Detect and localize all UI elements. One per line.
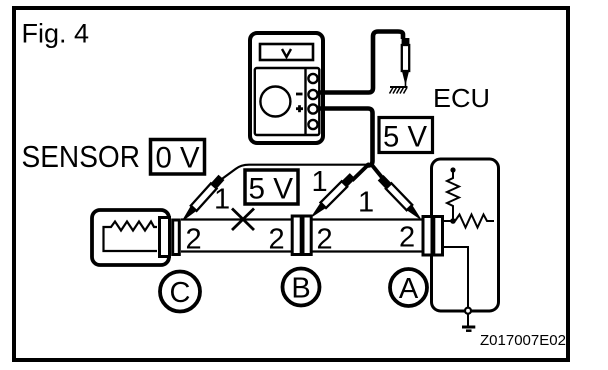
svg-text:5 V: 5 V <box>249 173 294 206</box>
svg-text:ECU: ECU <box>433 85 490 113</box>
svg-text:2: 2 <box>317 224 333 256</box>
svg-text:2: 2 <box>399 222 415 254</box>
svg-text:0 V: 0 V <box>156 142 200 175</box>
svg-text:2: 2 <box>186 224 202 256</box>
svg-text:2: 2 <box>269 224 285 256</box>
svg-text:1: 1 <box>214 184 230 216</box>
svg-text:5 V: 5 V <box>383 121 427 154</box>
svg-text:A: A <box>399 273 419 305</box>
svg-text:SENSOR: SENSOR <box>22 139 141 174</box>
svg-text:C: C <box>170 277 191 309</box>
svg-text:1: 1 <box>358 187 374 219</box>
svg-text:B: B <box>291 273 310 305</box>
svg-text:1: 1 <box>312 166 328 198</box>
svg-text:Z017007E02: Z017007E02 <box>480 332 566 349</box>
svg-text:Fig. 4: Fig. 4 <box>22 19 90 49</box>
